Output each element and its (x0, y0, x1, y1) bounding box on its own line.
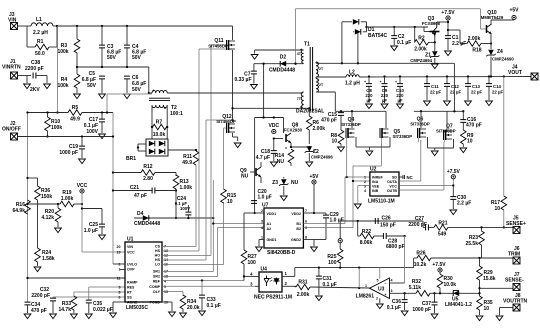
svg-text:INA: INA (372, 180, 379, 184)
capacitor C13 (465, 75, 482, 100)
capacitor C25 (82, 209, 105, 235)
svg-text:RAMP: RAMP (127, 281, 138, 285)
ground bias winding (251, 55, 258, 60)
svg-text:VCC: VCC (127, 251, 135, 255)
svg-text:VDD2: VDD2 (291, 212, 301, 216)
svg-text:GND2: GND2 (291, 238, 301, 242)
wire COMP to opto (162, 285, 255, 287)
svg-text:SENSE-: SENSE- (505, 278, 524, 284)
ground (431, 151, 438, 156)
svg-text:A2: A2 (267, 227, 272, 231)
resistor R33 (58, 292, 125, 313)
resistor R25 (327, 243, 343, 268)
wire VDC node (255, 116, 284, 118)
svg-text:NU: NU (241, 174, 249, 180)
connector J6 TRIM (508, 246, 520, 264)
svg-text:VOUT: VOUT (508, 70, 522, 76)
svg-text:2.2 µH: 2.2 µH (33, 30, 48, 36)
svg-text:BR1: BR1 (126, 156, 136, 162)
svg-text:6: 6 (305, 220, 307, 224)
svg-text:2200 pF: 2200 pF (25, 66, 44, 72)
svg-text:C12: C12 (451, 84, 459, 89)
svg-text:SI7456DP: SI7456DP (208, 44, 228, 49)
svg-text:R1: R1 (37, 39, 44, 45)
svg-text:3: 3 (391, 289, 393, 293)
svg-text:INB: INB (372, 189, 379, 193)
svg-text:FCX2930: FCX2930 (284, 128, 303, 133)
svg-text:COMP: COMP (149, 285, 160, 289)
svg-text:47 pF: 47 pF (134, 193, 147, 199)
svg-text:CS: CS (155, 244, 161, 248)
svg-text:549: 549 (438, 232, 447, 238)
svg-text:+7.5V: +7.5V (432, 262, 446, 268)
svg-text:0.1 µF: 0.1 µF (387, 305, 401, 311)
svg-text:DA2032SAL: DA2032SAL (296, 109, 324, 115)
svg-text:50V: 50V (132, 87, 142, 93)
transistor Q6 SI7336DP (410, 111, 434, 148)
svg-text:1: 1 (364, 176, 366, 180)
ground op-amp (376, 304, 383, 309)
resistor R30 (437, 274, 456, 293)
svg-text:REF: REF (153, 279, 161, 283)
transistor Q5 SI7336DP (369, 111, 412, 166)
zener Z1 CMPZ4694 (410, 42, 439, 63)
capacitor C28 (383, 233, 405, 250)
ground (24, 84, 31, 89)
resistor R35 (477, 296, 493, 315)
svg-text:2200 pF: 2200 pF (408, 222, 427, 228)
ground GND1 (256, 240, 263, 252)
svg-text:2: 2 (119, 263, 121, 267)
svg-text:1.0 µF: 1.0 µF (84, 228, 98, 234)
capacitor C33 (162, 279, 244, 310)
ground (450, 210, 457, 215)
svg-text:6: 6 (119, 296, 121, 300)
wire +5V top feed (294, 9, 486, 65)
svg-text:4.7 µF: 4.7 µF (256, 155, 270, 161)
ground (465, 101, 472, 106)
svg-text:15.8k: 15.8k (483, 276, 496, 282)
ground (401, 311, 408, 316)
svg-text:2: 2 (261, 209, 263, 213)
svg-text:U3: U3 (378, 287, 385, 293)
svg-text:C14: C14 (493, 84, 501, 89)
transformer T1 (231, 42, 324, 115)
svg-text:22 µF: 22 µF (492, 90, 503, 95)
svg-text:CMPZ4696: CMPZ4696 (311, 155, 333, 160)
wire CS net (162, 165, 196, 247)
svg-text:5: 5 (377, 279, 379, 283)
wire compensation top (340, 220, 423, 222)
capacitor C30 (450, 184, 471, 209)
svg-text:8.06k: 8.06k (360, 240, 373, 246)
svg-text:MMBT5429: MMBT5429 (481, 15, 504, 20)
ground (431, 64, 438, 69)
connector J7 SENSE- (480, 272, 524, 291)
ground (431, 314, 438, 319)
wire HS1 net (162, 49, 233, 251)
svg-text:100k: 100k (57, 83, 68, 89)
svg-text:OUTB: OUTB (387, 189, 398, 193)
wire B1 to gate (303, 176, 370, 224)
wire sec bottom (316, 92, 335, 111)
resistor R26 (414, 255, 513, 268)
svg-text:9: 9 (119, 286, 121, 290)
svg-text:SS: SS (127, 296, 132, 300)
svg-text:R22: R22 (362, 229, 371, 235)
svg-text:6800 pF: 6800 pF (386, 244, 405, 250)
svg-text:R21: R21 (438, 221, 447, 227)
svg-text:19: 19 (117, 251, 121, 255)
capacitor C19 (59, 135, 85, 158)
svg-text:1000 pF: 1000 pF (412, 307, 431, 313)
svg-text:OUTA: OUTA (387, 180, 397, 184)
svg-text:150 pF: 150 pF (380, 223, 396, 229)
transistor Q10 MMBT5429 (481, 10, 511, 44)
svg-text:0.022 µF: 0.022 µF (93, 307, 113, 313)
capacitor C37 (412, 293, 437, 313)
ground (424, 101, 431, 106)
capacitor C20 (251, 189, 272, 203)
svg-text:C11: C11 (431, 84, 439, 89)
resistor R4 (57, 74, 79, 93)
capacitor C6 (124, 75, 146, 93)
wire OUTA to Q6 gate (399, 140, 421, 181)
capacitor C32 (31, 287, 125, 313)
resistor R12 (112, 164, 176, 182)
diode D1 BAT54C (342, 19, 428, 63)
svg-text:10: 10 (467, 139, 473, 145)
svg-text:−: − (384, 282, 386, 286)
svg-text:10: 10 (494, 206, 500, 212)
svg-text:50V: 50V (132, 55, 142, 61)
svg-text:NC: NC (407, 175, 413, 180)
wire cap midpoint (76, 66, 150, 94)
svg-text:+: + (364, 80, 366, 84)
svg-text:CMPZ4690: CMPZ4690 (492, 57, 514, 62)
svg-text:SI7336DP: SI7336DP (393, 134, 413, 139)
capacitor C31 (316, 268, 337, 295)
svg-text:U2: U2 (370, 167, 377, 173)
ground (34, 267, 41, 272)
svg-text:CMDD4448: CMDD4448 (269, 68, 295, 74)
svg-text:3: 3 (261, 220, 263, 224)
opto U4 NEC PS2911-1M (250, 267, 296, 301)
capacitor C10 (395, 75, 405, 103)
svg-text:1000 pF: 1000 pF (59, 150, 78, 156)
connector J5 SENSE+ (506, 216, 526, 234)
ground (99, 94, 106, 99)
ground (85, 314, 92, 319)
capacitor C9 (380, 75, 389, 103)
svg-text:2.00k: 2.00k (313, 126, 326, 132)
capacitor C2 (391, 26, 411, 46)
resistor R16 (12, 200, 30, 214)
svg-text:20.0k: 20.0k (187, 305, 200, 311)
svg-text:100: 100 (248, 260, 257, 266)
ground (445, 51, 452, 56)
ground (71, 314, 78, 319)
capacitor C5 (82, 71, 105, 93)
ground (79, 159, 86, 164)
svg-text:22 µF: 22 µF (450, 90, 461, 95)
diode D2 (254, 55, 304, 74)
svg-text:UVLO: UVLO (127, 263, 137, 267)
bridge BR1 (126, 139, 197, 162)
node +5V terminal (309, 174, 319, 214)
wire B2 to gate (303, 166, 381, 228)
capacitor C4 (124, 26, 146, 67)
wire HO net (162, 45, 227, 256)
svg-text:DLY: DLY (153, 290, 160, 294)
connector J1 VINRTN (2, 59, 31, 79)
wire top rail (56, 25, 233, 27)
svg-text:470 pF: 470 pF (31, 308, 47, 314)
svg-text:100k: 100k (51, 125, 62, 131)
svg-text:C13: C13 (472, 84, 480, 89)
wire input sense (106, 94, 152, 114)
resistor R10 (45, 111, 63, 137)
wire opto out / FB node (295, 266, 414, 276)
zener Z2 CMPZ4696 (305, 146, 334, 161)
transistor Q11 SI7456DP (208, 26, 235, 122)
svg-text:T1: T1 (304, 42, 310, 48)
svg-text:1.0 µF: 1.0 µF (258, 195, 272, 201)
svg-text:22 µF: 22 µF (471, 90, 482, 95)
svg-text:+7.5V: +7.5V (441, 10, 455, 16)
capacitor C11 (424, 75, 441, 100)
transistor Q3 FCX8908 (366, 16, 448, 42)
svg-text:B1: B1 (296, 222, 301, 226)
svg-text:22 µF: 22 µF (430, 90, 441, 95)
svg-text:INREF: INREF (372, 176, 384, 180)
resistor R32 (409, 279, 460, 296)
svg-text:2.00k: 2.00k (468, 36, 481, 42)
ground (381, 104, 388, 109)
svg-text:LM5110-1M: LM5110-1M (368, 199, 395, 205)
resistor R14 (275, 146, 294, 166)
svg-text:R18: R18 (472, 48, 481, 54)
diode D4 (134, 211, 214, 227)
ground (251, 85, 258, 90)
capacitor C1 (445, 35, 466, 50)
svg-text:VCC: VCC (77, 183, 88, 189)
node +7.5V terminal (441, 10, 455, 36)
svg-text:U7: U7 (262, 203, 269, 209)
node comp test point (338, 221, 342, 243)
capacitor C34 (25, 302, 47, 314)
svg-text:5.11k: 5.11k (409, 285, 421, 291)
svg-text:RT: RT (127, 291, 133, 295)
ground (99, 235, 106, 240)
transistor Q4 SI7336DP (341, 111, 369, 177)
ground (24, 314, 31, 319)
resistor R29 (477, 258, 496, 296)
svg-text:2.80: 2.80 (143, 176, 153, 182)
resistor R5 (28, 105, 114, 123)
svg-text:1.00k: 1.00k (61, 196, 74, 202)
svg-text:VINRTN: VINRTN (2, 65, 21, 71)
svg-text:2.2 µF: 2.2 µF (457, 201, 471, 207)
svg-text:4: 4 (261, 226, 263, 230)
svg-text:ON/OFF: ON/OFF (2, 127, 21, 133)
ground (316, 296, 323, 301)
resistor R23 (465, 226, 484, 258)
resistor R22 (358, 221, 384, 246)
svg-text:OVP: OVP (127, 268, 135, 272)
ground (124, 94, 131, 99)
svg-text:RES: RES (127, 286, 135, 290)
resistor R11 (182, 150, 199, 166)
ground (338, 147, 345, 152)
ground (74, 94, 81, 99)
resistor R1 (27, 26, 57, 57)
connector J8 VOUTRTN (500, 293, 528, 315)
svg-text:CMPZ4694: CMPZ4694 (410, 58, 432, 63)
svg-text:VIN: VIN (127, 245, 133, 249)
resistor R2 (414, 27, 436, 53)
zener Z3 NU (272, 177, 298, 195)
svg-text:0.33 µF: 0.33 µF (234, 77, 251, 83)
resistor R34 (162, 292, 200, 313)
svg-text:470 pF: 470 pF (321, 118, 337, 124)
svg-text:10.2k: 10.2k (414, 262, 427, 268)
capacitor C27 (408, 216, 428, 230)
wire VDD1 net (253, 63, 264, 215)
svg-text:10.0k: 10.0k (444, 282, 457, 288)
svg-text:+5V: +5V (509, 8, 519, 14)
svg-text:64.9k: 64.9k (12, 208, 25, 214)
svg-text:SD: SD (392, 176, 397, 180)
wire TRIM net (414, 251, 426, 268)
capacitor C17 (84, 111, 105, 135)
svg-text:VDC: VDC (269, 123, 280, 129)
svg-text:3: 3 (364, 185, 366, 189)
transistor Q9 NU (240, 162, 261, 183)
svg-text:HS: HS (155, 258, 161, 262)
resistor R3 (57, 26, 79, 74)
wire FET rail A (335, 110, 386, 112)
wire OUTB to Q7 gate (399, 142, 444, 190)
capacitor C18 (256, 139, 277, 162)
resistor R18 (448, 30, 492, 54)
svg-text:GND1: GND1 (267, 238, 277, 242)
svg-text:NU: NU (277, 159, 285, 165)
svg-text:100V: 100V (180, 206, 190, 211)
svg-text:VCC: VCC (389, 185, 397, 189)
svg-text:4: 4 (364, 189, 366, 193)
resistor R7 (151, 120, 169, 139)
ground VEE (354, 186, 370, 209)
svg-text:4: 4 (164, 279, 166, 283)
svg-text:µF: µF (366, 98, 371, 103)
svg-text:0.1 µF: 0.1 µF (397, 40, 411, 46)
svg-text:2.2 µF: 2.2 µF (452, 41, 466, 47)
ground (391, 46, 398, 51)
svg-text:U4: U4 (261, 267, 268, 273)
wire left net (26, 111, 28, 302)
wire HS2 net (162, 119, 234, 260)
svg-text:LO: LO (155, 262, 160, 266)
svg-text:100:1: 100:1 (170, 111, 183, 117)
svg-text:49.9: 49.9 (70, 117, 80, 123)
capacitor C3 (99, 26, 121, 67)
wire SR1 net (162, 180, 264, 272)
svg-text:SI7336DP: SI7336DP (341, 122, 361, 127)
resistor R6 (307, 108, 326, 148)
wire RAMP line (26, 277, 125, 279)
capacitor C14 (486, 75, 503, 100)
transistor Q12 SI7456DP (216, 114, 237, 141)
svg-text:8: 8 (305, 236, 307, 240)
isolator U7 SI8420BB-D (254, 203, 314, 257)
svg-text:11: 11 (117, 277, 121, 281)
resistor R24 (35, 248, 55, 266)
resistor R13 (173, 173, 192, 220)
capacitor C29 (314, 212, 344, 240)
ground (486, 101, 493, 106)
svg-text:BAT54C: BAT54C (368, 33, 387, 39)
svg-text:0.1 µF: 0.1 µF (207, 303, 221, 309)
wire FET rail B (414, 63, 463, 112)
connector J3 VIN (8, 12, 27, 30)
ground (280, 196, 287, 201)
capacitor C7 (234, 64, 256, 84)
svg-text:2: 2 (364, 180, 366, 184)
driver U2 LM5110-1M (364, 167, 413, 205)
ground PGND (162, 302, 175, 317)
ground (366, 104, 373, 109)
svg-text:µF: µF (382, 98, 387, 103)
reference U5 LM4041-1.2 (445, 291, 480, 309)
svg-text:10: 10 (331, 139, 337, 145)
op controller U1 LM5035C (113, 237, 168, 312)
capacitor C35 (86, 287, 125, 313)
svg-text:10: 10 (484, 306, 490, 312)
ground (306, 162, 313, 167)
svg-text:8: 8 (119, 291, 121, 295)
svg-text:2KV: 2KV (30, 87, 40, 93)
svg-text:AGND: AGND (127, 300, 138, 304)
resistor R17 (491, 75, 507, 228)
ground (199, 311, 206, 316)
svg-text:LM4041-1.2: LM4041-1.2 (445, 302, 472, 308)
svg-text:470 pF: 470 pF (466, 123, 482, 129)
svg-text:7: 7 (305, 209, 307, 213)
capacitor C16 snubber (460, 110, 482, 130)
capacitor C12 (444, 75, 461, 100)
ground (366, 151, 373, 156)
svg-text:HS: HS (155, 249, 161, 253)
svg-text:1: 1 (365, 284, 367, 288)
svg-text:SI7336DP: SI7336DP (410, 122, 430, 127)
svg-text:2: 2 (376, 297, 378, 301)
inductor L1 (27, 17, 57, 36)
transistor Q8 FCX2930 (273, 118, 310, 148)
ground (460, 148, 467, 153)
resistor R9 (461, 130, 474, 147)
svg-text:C26: C26 (382, 216, 391, 222)
node +5V terminal (509, 8, 519, 21)
capacitor C21 (112, 185, 176, 199)
node VDC terminal (269, 123, 280, 134)
ground (270, 162, 277, 167)
svg-text:Z3: Z3 (272, 180, 278, 186)
svg-text:10: 10 (227, 199, 233, 205)
zener Z4 CMPZ4690 (486, 44, 514, 78)
svg-text:VDD1: VDD1 (267, 212, 277, 216)
ground (55, 228, 62, 233)
